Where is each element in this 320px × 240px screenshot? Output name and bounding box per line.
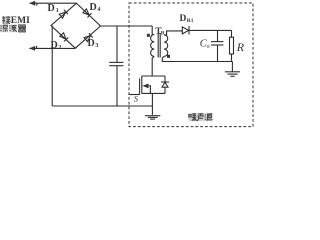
svg-text:D: D: [51, 40, 58, 51]
svg-text:o: o: [207, 44, 210, 50]
svg-text:D: D: [180, 14, 187, 24]
svg-text:R: R: [161, 31, 166, 37]
svg-text:2: 2: [58, 45, 61, 51]
svg-text:D: D: [88, 38, 95, 49]
svg-text:R: R: [236, 40, 245, 54]
svg-text:1: 1: [56, 8, 59, 14]
svg-text:R1: R1: [187, 18, 194, 24]
svg-text:4: 4: [97, 7, 100, 13]
svg-text:D: D: [90, 2, 97, 13]
svg-text:3: 3: [95, 43, 98, 49]
svg-text:D: D: [48, 3, 55, 14]
svg-text:S: S: [134, 94, 139, 104]
